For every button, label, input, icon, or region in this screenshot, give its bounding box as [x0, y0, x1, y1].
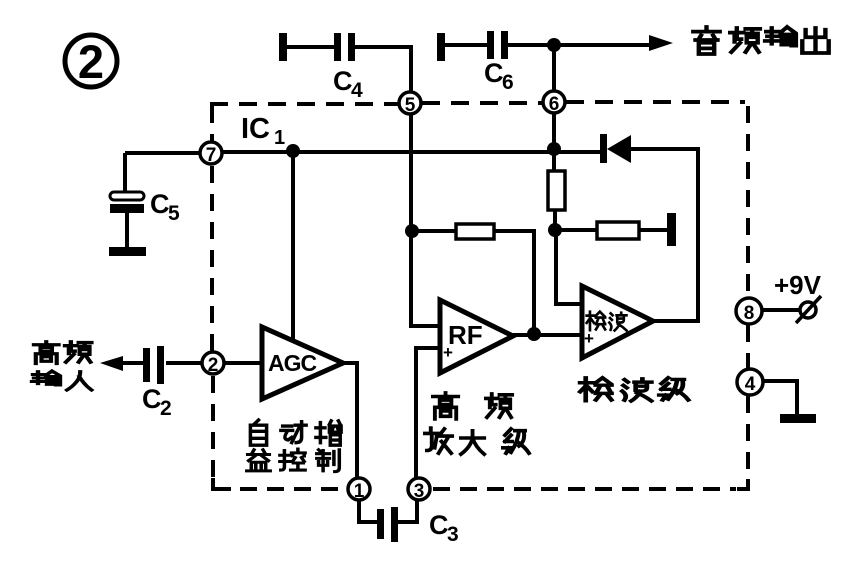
wire [508, 43, 656, 47]
svg-text:4: 4 [351, 79, 363, 102]
IC1 dashed box left edge [212, 106, 213, 478]
node junction bias tap [547, 142, 561, 156]
svg-text:+: + [584, 329, 594, 348]
ground right side [780, 414, 816, 423]
capacitor C3 [377, 507, 459, 546]
wire bias node to detector upper input [556, 230, 582, 304]
svg-text:4: 4 [745, 374, 756, 395]
wire pin8 to +9V terminal [762, 308, 800, 312]
label RF input text [32, 342, 92, 390]
wire AGC control line [291, 151, 295, 342]
svg-text:IC: IC [241, 113, 270, 145]
pin 5 [399, 92, 421, 116]
resistor R2 vertical [548, 149, 565, 230]
wire pin4 to ground [763, 381, 797, 414]
wire pin2 to AGC input [224, 361, 262, 365]
capacitor C5 [110, 189, 180, 225]
svg-text:3: 3 [447, 523, 459, 546]
svg-text:3: 3 [414, 481, 425, 502]
svg-text:+9V: +9V [774, 270, 822, 300]
wire [445, 43, 487, 47]
label AGC stage text [247, 420, 341, 472]
label detector stage text [580, 378, 688, 401]
svg-text:AGC: AGC [268, 350, 317, 376]
pin 1 [348, 478, 370, 502]
ground below C5 [109, 247, 146, 256]
IC1 dashed box right edge [746, 106, 750, 477]
pin 7 [200, 142, 222, 166]
svg-text:7: 7 [206, 145, 217, 166]
wire top-right terminal bar [437, 33, 445, 61]
pin 4 [737, 369, 763, 395]
svg-text:2: 2 [78, 35, 104, 88]
svg-text:6: 6 [502, 71, 514, 94]
+9V terminal circle with slash [796, 296, 821, 323]
wire RF output [513, 333, 582, 337]
wire pin5 to top [552, 45, 556, 91]
svg-text:1: 1 [354, 481, 365, 502]
wire C5 to ground [125, 213, 129, 247]
svg-text:C: C [150, 189, 170, 219]
resistor R3 horizontal [555, 222, 667, 239]
node junction RF output [527, 327, 541, 341]
label IC1 [241, 113, 285, 149]
pin 8 [736, 298, 762, 324]
capacitor C4 [333, 33, 363, 102]
wire pin6 down to node [552, 113, 556, 149]
capacitor C2 [142, 346, 172, 420]
terminal bar right of R3 [667, 213, 676, 246]
wire pin5 down through node to RF upper input [411, 114, 440, 326]
wire C2 to pin2 [121, 361, 202, 365]
capacitor C3 wires [359, 500, 417, 522]
svg-text:C: C [429, 510, 449, 540]
wire pin3 up to RF lower input [416, 348, 440, 478]
wire pin7 left branch down to C5 [123, 153, 127, 192]
label RF amplifier stage text [425, 393, 529, 454]
wire [287, 45, 334, 49]
node junction bias node [548, 223, 562, 237]
svg-text:C: C [484, 58, 504, 88]
IC1 dashed box bottom-left corner [213, 478, 231, 489]
svg-text:1: 1 [274, 127, 285, 149]
svg-text:C: C [142, 384, 162, 414]
figure number circle 2 [65, 35, 117, 88]
capacitor C6 [484, 31, 514, 94]
node junction at C6 output [547, 38, 561, 52]
node junction feedback tap [405, 224, 419, 238]
diode D1 [600, 134, 631, 163]
IC1 dashed box bottom edge [240, 487, 736, 491]
svg-text:5: 5 [405, 95, 416, 116]
wire [355, 47, 411, 92]
svg-text:+: + [443, 343, 453, 362]
IC1 dashed box bottom-right corner [737, 479, 748, 489]
IC1 dashed box top edge [210, 102, 745, 104]
wire top-left terminal bar [279, 33, 287, 61]
wire AGC output down to pin1 [343, 363, 357, 478]
svg-text:5: 5 [168, 202, 180, 225]
wire from diode to right and down to detector output [631, 149, 698, 321]
svg-text:2: 2 [160, 397, 172, 420]
op-amp RF [440, 300, 513, 373]
svg-text:RF: RF [448, 320, 483, 350]
pin 3 [408, 478, 430, 502]
svg-text:8: 8 [744, 303, 755, 324]
op-amp AGC [262, 327, 343, 399]
arrow RF input [100, 356, 123, 371]
svg-text:6: 6 [549, 94, 560, 115]
svg-text:2: 2 [208, 355, 219, 376]
svg-text:C: C [333, 66, 353, 96]
pin 6 [543, 91, 565, 115]
label audio output text [693, 27, 828, 54]
feedback resistor R1 [412, 224, 534, 334]
arrow audio output [649, 35, 673, 51]
node junction AGC tap [286, 144, 300, 158]
main horizontal wire y150 [125, 152, 600, 153]
pin 2 [202, 352, 224, 376]
op-amp detector [582, 286, 653, 358]
